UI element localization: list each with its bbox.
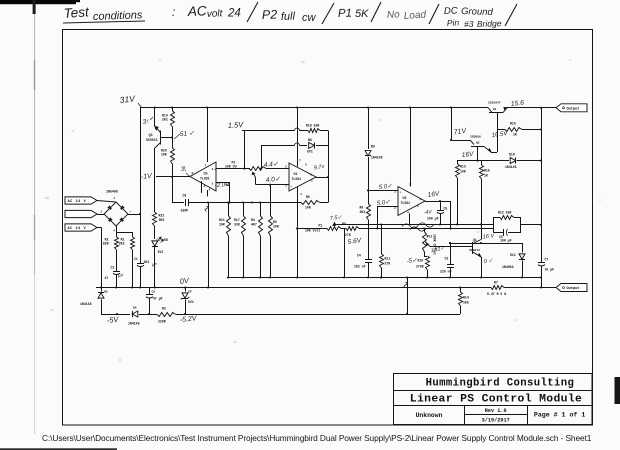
svg-text:4: 4 <box>300 193 302 196</box>
svg-text:R13: R13 <box>460 165 466 169</box>
wire collector rail to R22 <box>154 150 156 212</box>
svg-text:Ground: Ground <box>461 6 494 18</box>
wire bridge bottom to R2 <box>116 226 118 237</box>
svg-text:-: - <box>291 168 293 172</box>
diode D8 1N4148 <box>101 288 103 292</box>
svg-text:R10: R10 <box>418 259 424 263</box>
junction dots top bus <box>154 106 156 108</box>
svg-text:R18 56K: R18 56K <box>306 124 319 128</box>
svg-text:10K: 10K <box>161 152 167 156</box>
capacitor C4 102nF <box>365 259 372 261</box>
zener ZP 5V1 <box>185 288 187 292</box>
diode D6 1N4148 <box>132 311 138 317</box>
svg-text:330P: 330P <box>181 209 189 213</box>
svg-text:100 µF: 100 µF <box>500 239 512 243</box>
transistor Q2 2SD880 <box>451 140 470 142</box>
svg-text:Rev 1.0: Rev 1.0 <box>485 408 507 414</box>
LED CC LED 3V2 <box>152 241 158 246</box>
svg-text:5.6V: 5.6V <box>347 237 362 246</box>
svg-text:2K2: 2K2 <box>162 117 168 121</box>
wire U2 pin4 stub <box>409 214 411 225</box>
svg-text:µF: µF <box>118 273 124 278</box>
svg-text:volt: volt <box>207 8 224 20</box>
wire C4 to ground bus <box>368 263 370 278</box>
scan noise speckles <box>45 59 602 361</box>
svg-text:full: full <box>281 10 296 23</box>
transistor Q4 2SD1047 <box>488 108 492 113</box>
wire U2 pin7 to bus <box>410 108 412 187</box>
wire P2 wiper down to U1 in+ line <box>255 178 257 185</box>
resistor R11 27K <box>381 225 383 255</box>
hw slash 3 <box>371 2 381 22</box>
svg-text:R3: R3 <box>162 307 166 311</box>
wire Q1 collector node to D11 <box>450 243 522 245</box>
svg-text:0V: 0V <box>179 276 190 286</box>
svg-text:R8: R8 <box>342 222 346 226</box>
transistor Q1 SS9014 <box>466 246 472 248</box>
wire Q2 emitter to Q4 base node <box>491 152 497 154</box>
wire U3 in+ to P2 <box>216 168 250 170</box>
op-amp U3 TL081 <box>190 162 216 191</box>
wire stub left of node <box>156 176 172 178</box>
svg-text:24: 24 <box>227 8 241 20</box>
svg-text:6: 6 <box>310 173 312 176</box>
svg-text:-1V: -1V <box>140 173 153 181</box>
svg-text:C8: C8 <box>183 194 187 198</box>
wire bus C <box>101 314 130 316</box>
svg-text:3K9: 3K9 <box>159 218 165 222</box>
svg-text:5: 5 <box>305 164 307 167</box>
svg-text:220 nF: 220 nF <box>440 270 452 274</box>
svg-text:47: 47 <box>105 276 109 280</box>
potentiometer P1 10K Volt <box>327 227 341 231</box>
wire box right vertical <box>328 131 330 146</box>
svg-text:R16: R16 <box>510 121 516 125</box>
wire bus C right end up to R14 <box>460 306 462 314</box>
svg-text:1K5: 1K5 <box>463 301 469 305</box>
svg-text:4: 4 <box>209 189 211 192</box>
wire U3 pin1 stub <box>201 181 203 193</box>
svg-text:Page # 1 of 1: Page # 1 of 1 <box>534 412 585 419</box>
wire U1 out to feedback rail <box>316 177 328 179</box>
svg-text:2SD1047: 2SD1047 <box>488 102 501 105</box>
svg-text:+: + <box>130 211 132 214</box>
svg-text:-: - <box>214 184 216 188</box>
svg-text:5.0✓: 5.0✓ <box>379 184 393 191</box>
wire U3 output to node <box>172 176 190 178</box>
wire bus A 0V upper <box>229 277 541 279</box>
wire C1 to 0V bus <box>140 266 142 288</box>
wire top bus right of Q4 <box>507 107 557 109</box>
svg-text:C9: C9 <box>152 291 156 294</box>
svg-text:No: No <box>387 9 401 21</box>
svg-text:1: 1 <box>311 179 313 182</box>
wire U3 pin4 stub <box>207 190 209 197</box>
svg-text:3|: 3| <box>180 166 186 173</box>
svg-text:1.42✓: 1.42✓ <box>430 246 446 254</box>
svg-text:3: 3 <box>114 197 116 200</box>
capacitor C8 330P inline <box>172 202 184 204</box>
svg-text:Q4: Q4 <box>493 108 497 111</box>
svg-text:µF: µF <box>152 262 157 267</box>
zener B8 5V1 <box>261 145 295 147</box>
svg-text:1: 1 <box>417 205 419 208</box>
svg-text:71V: 71V <box>453 128 468 137</box>
wire Q2 rail from bus <box>451 108 453 141</box>
diode B9 1N4148 <box>365 151 371 156</box>
svg-text:16.5V: 16.5V <box>491 131 508 139</box>
svg-text:+: + <box>291 185 293 189</box>
svg-text:CC LED: CC LED <box>157 238 169 242</box>
svg-text:33K: 33K <box>234 222 240 226</box>
svg-text:AC 24 V: AC 24 V <box>68 227 87 231</box>
wire line1 into box left <box>481 224 493 226</box>
svg-text:3: 3 <box>285 184 287 187</box>
wire R22 to LED <box>154 226 156 239</box>
svg-text:1K: 1K <box>484 174 488 178</box>
svg-text:B9: B9 <box>371 145 375 149</box>
svg-text:Output: Output <box>567 107 580 111</box>
diode D10 1N4148 <box>510 158 516 164</box>
bridge rectifier B1 1N5408 diamond <box>104 202 128 226</box>
svg-text:Unknown: Unknown <box>416 412 443 419</box>
capacitor C2 47uF <box>113 271 120 273</box>
wire LED to 0V bus <box>154 247 156 288</box>
svg-text:Q1: Q1 <box>473 238 477 242</box>
wire Q3 base to R19/R20 rail <box>161 137 173 139</box>
svg-text:R5: R5 <box>306 195 310 199</box>
resistor R9 2K2 <box>368 191 370 205</box>
wire P1 left to rail <box>297 228 327 230</box>
capacitor C1 3K3uF <box>137 263 144 265</box>
svg-text:2K2: 2K2 <box>360 210 366 214</box>
title block vertical divider left <box>464 405 466 424</box>
svg-text:2: 2 <box>101 211 103 214</box>
svg-text:R17: R17 <box>234 218 240 222</box>
wire P2 to U1 in- <box>266 168 289 170</box>
svg-text:R7: R7 <box>494 280 498 284</box>
wire bridge+ rail down <box>140 214 142 263</box>
wire U2 out down to feedback line <box>450 201 452 229</box>
svg-text:3: 3 <box>394 190 396 193</box>
wire node line <box>457 160 509 162</box>
resistor R6 10K <box>270 185 272 216</box>
op-amp U2 TL081 <box>398 187 425 216</box>
capacitor C3 220nF <box>450 243 452 264</box>
svg-text:1N4148: 1N4148 <box>128 322 140 326</box>
svg-text:2: 2 <box>285 165 287 168</box>
svg-text:TL081: TL081 <box>292 177 302 181</box>
resistor R22 3K9 <box>153 212 157 226</box>
wire U2 output <box>425 201 451 203</box>
output connector top <box>556 104 587 112</box>
svg-text:C3: C3 <box>445 257 449 261</box>
capacitor C9 47uF <box>149 288 151 295</box>
svg-text:1.5V: 1.5V <box>228 120 245 130</box>
svg-text:R4: R4 <box>251 218 255 222</box>
wire RV1 to R10 <box>424 252 426 256</box>
svg-text:31V: 31V <box>119 93 136 105</box>
resistor R21 10K <box>228 203 230 217</box>
svg-text:10K CW: 10K CW <box>225 165 237 169</box>
wire U3 node down to C8 line <box>172 177 174 203</box>
svg-text:1N4148: 1N4148 <box>505 165 517 169</box>
wire conn1 to bridge top <box>97 201 116 203</box>
title block outer box <box>394 374 592 425</box>
svg-text:-5✓: -5✓ <box>407 258 418 265</box>
resistor R1 2K2 <box>131 237 135 250</box>
wire conn3 down to 0V bus <box>97 227 102 229</box>
connector P3 AC 24 V top <box>65 197 97 204</box>
svg-text:7.5✓: 7.5✓ <box>330 215 343 222</box>
svg-text:0 ✓: 0 ✓ <box>484 258 494 265</box>
svg-text:270K: 270K <box>416 265 424 269</box>
wire R1 to 0V bus <box>132 250 134 288</box>
svg-text:1: 1 <box>204 185 206 188</box>
resistor R19 2K2 <box>172 108 174 112</box>
svg-text:7: 7 <box>299 160 301 163</box>
svg-text:AC: AC <box>187 3 208 19</box>
svg-text:6: 6 <box>420 198 422 201</box>
resistor R18 56K <box>308 129 320 133</box>
resistor R2 82R <box>115 237 119 250</box>
wire bridge+ to rail <box>128 214 140 216</box>
wire 1.5V net to R18 <box>242 130 295 132</box>
transistor Q3 SS9015 <box>154 108 156 127</box>
scan artifact: bottom edge dark line <box>0 448 117 450</box>
svg-text:C7: C7 <box>545 258 549 262</box>
svg-text:C4: C4 <box>357 254 361 258</box>
resistor R20 10K <box>171 148 175 164</box>
svg-text:3V2: 3V2 <box>158 250 164 254</box>
hw slash 5 <box>505 4 517 26</box>
resistor R17 33K <box>243 203 245 217</box>
hw squiggle over mid lines <box>402 223 434 228</box>
svg-text:-: - <box>400 208 402 212</box>
resistor R12 56K / capacitor C6 100uF box <box>493 217 500 219</box>
svg-text:51 ✓: 51 ✓ <box>180 130 195 138</box>
svg-text:DC: DC <box>444 6 458 17</box>
svg-text:5V1: 5V1 <box>188 300 194 304</box>
svg-text:Q2: Q2 <box>476 142 480 145</box>
wire output rail down <box>541 108 543 225</box>
svg-text:R11: R11 <box>385 257 391 261</box>
junction dots bus B <box>100 286 102 288</box>
svg-text:15.6: 15.6 <box>510 100 524 108</box>
svg-text:4.4✓: 4.4✓ <box>264 161 280 169</box>
scan artifact: paper edge dark mark left <box>33 0 36 14</box>
wire U3 pin2 jog down to C8 line <box>216 182 229 184</box>
svg-text:AC 24 V: AC 24 V <box>68 200 87 204</box>
svg-text:R14: R14 <box>463 296 469 300</box>
svg-text:D8: D8 <box>104 291 108 294</box>
svg-text:Load: Load <box>403 9 426 22</box>
wire B8 left down to in- net <box>261 145 263 168</box>
svg-text:2SD880: 2SD880 <box>470 136 481 139</box>
svg-text:10K Volt: 10K Volt <box>305 229 320 233</box>
svg-text:16V: 16V <box>461 151 474 159</box>
svg-text:4: 4 <box>114 230 116 233</box>
wire output rail to bus B <box>541 278 543 288</box>
svg-text:100 µF: 100 µF <box>427 217 439 221</box>
svg-text:TL081: TL081 <box>401 201 411 205</box>
svg-text:SS9015: SS9015 <box>146 138 158 142</box>
resistor R5 10K <box>320 202 328 204</box>
wire conn2 to bridge left <box>97 214 104 216</box>
svg-text:10K: 10K <box>219 222 225 226</box>
diode D11 1N4004 <box>519 254 525 259</box>
svg-text:R12 56K: R12 56K <box>498 210 511 214</box>
scan artifact: black bar top-left <box>0 0 76 4</box>
svg-text:3↑: 3↑ <box>142 118 150 126</box>
svg-text:82R: 82R <box>103 242 109 246</box>
svg-text:1K: 1K <box>513 132 517 136</box>
svg-text:5V1: 5V1 <box>307 149 313 153</box>
hw slash 2 <box>322 3 334 24</box>
resistor R16 1K <box>497 129 505 131</box>
svg-text:TL081: TL081 <box>200 177 210 181</box>
svg-text:5.0✓: 5.0✓ <box>377 200 391 207</box>
wire C2 to 0V bus <box>116 274 118 288</box>
svg-text:16V: 16V <box>427 190 440 199</box>
resistor R14 1K5 <box>459 292 463 306</box>
schematic border frame <box>63 30 593 426</box>
svg-text:Hummingbird Consulting: Hummingbird Consulting <box>426 378 575 390</box>
svg-text:RV1: RV1 <box>427 235 433 239</box>
hw slash 1 <box>247 2 258 22</box>
svg-text:2K2: 2K2 <box>119 242 125 246</box>
svg-text:5K: 5K <box>355 8 369 20</box>
potentiometer P2 10K CW <box>249 167 266 171</box>
svg-text:4: 4 <box>407 211 409 214</box>
resistor R10 270K <box>426 256 430 270</box>
svg-text:P1: P1 <box>338 8 352 20</box>
svg-text:cw: cw <box>302 12 317 24</box>
svg-text:1N4148: 1N4148 <box>80 302 92 306</box>
svg-text::: : <box>172 5 175 19</box>
junction dots bus A <box>227 276 229 278</box>
wire U1 in+ line <box>256 184 290 186</box>
svg-text:220R: 220R <box>158 320 166 324</box>
svg-text:R15: R15 <box>484 169 490 173</box>
wire bus B 0V <box>96 287 491 289</box>
svg-text:C2: C2 <box>111 266 115 270</box>
svg-text:B8: B8 <box>308 138 312 142</box>
svg-text:ZP: ZP <box>188 291 192 294</box>
wire rail 407 busA to busC <box>407 278 409 315</box>
svg-text:P1: P1 <box>319 224 323 228</box>
svg-text:9.7v: 9.7v <box>313 164 325 172</box>
wire U1 pin4 rail down <box>297 187 299 278</box>
svg-text:R9: R9 <box>360 206 364 210</box>
svg-text:SS9014: SS9014 <box>469 249 480 252</box>
output connector bottom <box>556 284 587 292</box>
svg-text:2: 2 <box>394 207 396 210</box>
potentiometer RV1 100K Offset <box>424 229 426 233</box>
svg-text:102 nF: 102 nF <box>354 265 366 269</box>
svg-text:Bridge: Bridge <box>477 18 502 29</box>
svg-text:Q3: Q3 <box>149 133 153 137</box>
wire box right to output rail <box>521 224 541 226</box>
resistor R4 4K7 <box>260 203 262 217</box>
connector middle blank <box>65 210 97 217</box>
wire B9 rail from bus <box>368 108 370 150</box>
title block rev/date divider <box>464 414 527 416</box>
wire P1/R8 node to ground bus <box>344 229 346 278</box>
svg-text:Test: Test <box>63 4 90 21</box>
scan artifact: black mark right edge <box>615 377 620 404</box>
hw slash 4 <box>429 4 439 24</box>
svg-text:-4V: -4V <box>424 209 433 216</box>
svg-text:P2: P2 <box>262 7 278 22</box>
connector AC 24 V bottom <box>65 224 97 231</box>
svg-text:-5.2V: -5.2V <box>179 315 198 324</box>
resistor R3 220R <box>157 313 176 317</box>
svg-text:#3: #3 <box>464 19 474 29</box>
svg-text:R21: R21 <box>219 218 225 222</box>
resistor R7 0.47R 5W <box>491 286 504 290</box>
wire 1.5V down to P2 <box>244 131 246 169</box>
svg-text:10K: 10K <box>460 170 466 174</box>
svg-text:R6: R6 <box>273 220 277 224</box>
wire U1 power rail from bus <box>297 108 299 167</box>
svg-text:D10: D10 <box>509 153 515 157</box>
svg-text:3K3: 3K3 <box>144 260 150 264</box>
svg-text:7: 7 <box>205 165 207 168</box>
wire U3 pin7 to bus <box>207 108 209 163</box>
svg-text:Linear PS Control Module: Linear PS Control Module <box>410 394 582 406</box>
svg-text:Pin: Pin <box>447 17 460 28</box>
svg-text:Output: Output <box>567 287 580 291</box>
svg-text:4.0✓: 4.0✓ <box>266 176 282 184</box>
wire rail 208 from C8 line to 0V bus <box>208 203 210 288</box>
capacitor C7 10uF <box>541 225 543 263</box>
svg-text:10 µF: 10 µF <box>545 268 555 272</box>
wire top bus 31V <box>140 107 488 109</box>
wire rail bridge+ to bus <box>140 108 142 215</box>
title block vertical divider right <box>527 405 529 424</box>
svg-text:+: + <box>214 168 216 172</box>
wire R8 to U2 in- <box>377 206 379 229</box>
svg-text:-5V: -5V <box>106 315 120 325</box>
wire R20 bottom to U3 output node <box>172 164 174 177</box>
svg-text:10K: 10K <box>273 224 279 228</box>
svg-text:47 µF: 47 µF <box>153 297 163 301</box>
svg-text:6: 6 <box>192 172 194 175</box>
wire R2 to C2 <box>116 250 118 271</box>
svg-text:0.47 R 5 W: 0.47 R 5 W <box>487 292 506 296</box>
scan artifact: paper edge faint vertical line <box>34 14 35 274</box>
title block row divider 1 <box>394 390 592 392</box>
svg-text:D11: D11 <box>510 253 516 257</box>
svg-text:1N4148: 1N4148 <box>371 156 383 160</box>
resistor R13 10K <box>457 161 459 164</box>
wire Q2 base-emitter node down <box>477 147 479 161</box>
svg-text:1N5408: 1N5408 <box>106 189 118 193</box>
svg-text:+: + <box>400 191 402 195</box>
op-amp U1 TL081 <box>289 163 316 191</box>
svg-text:C5: C5 <box>444 207 448 211</box>
svg-text:D6: D6 <box>133 307 137 310</box>
wire feedback rail <box>328 145 330 202</box>
wire mid line1 <box>334 224 481 226</box>
underline under Test conditions <box>63 21 145 23</box>
svg-text:4K7: 4K7 <box>251 222 257 226</box>
svg-text:16 V: 16 V <box>483 233 496 240</box>
svg-text:27K: 27K <box>345 233 351 237</box>
wire B9 to U2 in+ <box>368 157 370 191</box>
svg-text:27K: 27K <box>385 262 391 266</box>
